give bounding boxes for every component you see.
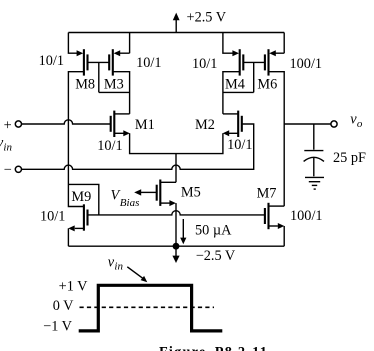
svg-text:10/1: 10/1 bbox=[227, 137, 252, 153]
svg-text:10/1: 10/1 bbox=[40, 208, 65, 224]
svg-text:10/1: 10/1 bbox=[39, 53, 64, 69]
svg-text:M1: M1 bbox=[135, 117, 155, 133]
svg-text:−2.5 V: −2.5 V bbox=[196, 248, 236, 264]
svg-text:in: in bbox=[114, 261, 123, 273]
svg-text:−1 V: −1 V bbox=[43, 318, 73, 334]
svg-text:M7: M7 bbox=[257, 186, 277, 202]
svg-text:100/1: 100/1 bbox=[290, 208, 323, 224]
svg-text:M3: M3 bbox=[104, 76, 124, 92]
svg-text:100/1: 100/1 bbox=[290, 56, 323, 72]
svg-text:+2.5 V: +2.5 V bbox=[187, 9, 227, 25]
svg-text:M6: M6 bbox=[257, 76, 277, 92]
svg-text:+1 V: +1 V bbox=[59, 279, 89, 295]
svg-text:Figure P8.2-11: Figure P8.2-11 bbox=[159, 345, 268, 351]
svg-text:−: − bbox=[4, 162, 12, 178]
svg-text:M9: M9 bbox=[71, 189, 91, 205]
svg-text:10/1: 10/1 bbox=[97, 138, 122, 154]
svg-text:25 pF: 25 pF bbox=[333, 150, 366, 166]
svg-text:10/1: 10/1 bbox=[136, 55, 161, 71]
svg-text:Bias: Bias bbox=[120, 197, 140, 209]
svg-text:+: + bbox=[4, 118, 12, 134]
svg-text:10/1: 10/1 bbox=[192, 56, 217, 72]
svg-text:M5: M5 bbox=[181, 185, 201, 201]
svg-text:o: o bbox=[357, 118, 363, 130]
svg-text:M8: M8 bbox=[75, 76, 95, 92]
svg-text:50 µA: 50 µA bbox=[195, 222, 232, 238]
svg-text:M2: M2 bbox=[195, 117, 215, 133]
svg-text:M4: M4 bbox=[225, 76, 245, 92]
svg-text:0 V: 0 V bbox=[53, 298, 74, 314]
svg-text:in: in bbox=[3, 141, 12, 153]
